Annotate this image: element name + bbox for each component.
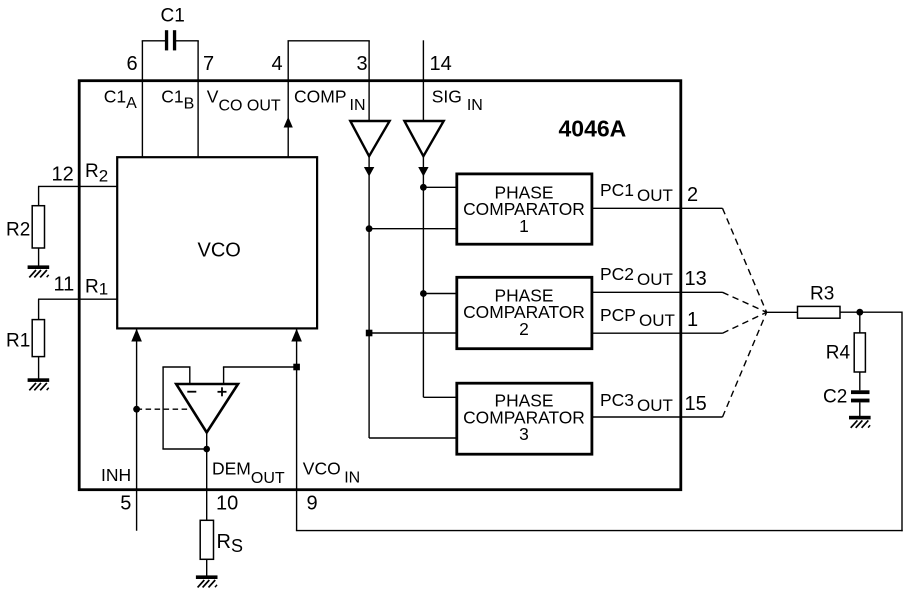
svg-text:C2: C2 bbox=[823, 387, 847, 408]
svg-text:INH: INH bbox=[101, 465, 131, 485]
phase comparator 1 box bbox=[457, 174, 592, 244]
op-amp demodulator triangle bbox=[176, 384, 238, 433]
wire inverting input stub bbox=[189, 367, 191, 384]
wire PC2 input from COMP line bbox=[369, 332, 457, 334]
wire pin 4 vertical (VCO OUT) bbox=[287, 41, 289, 157]
input buffer triangle SIG IN bbox=[404, 121, 443, 156]
junction dot op-amp output bbox=[203, 446, 210, 453]
svg-text:1: 1 bbox=[519, 216, 529, 236]
svg-text:R3: R3 bbox=[810, 284, 834, 305]
wire feedback left vertical bbox=[162, 367, 164, 449]
wire node to right rail bbox=[901, 312, 903, 532]
wire INH vertical bbox=[136, 329, 138, 531]
svg-text:R1: R1 bbox=[6, 330, 30, 351]
wire PC3 input from COMP line bbox=[369, 437, 457, 439]
wire pin 3 vertical (COMP IN) bbox=[368, 41, 370, 121]
svg-text:R4: R4 bbox=[826, 343, 851, 364]
wire feedback bottom bbox=[162, 448, 206, 450]
capacitor C1 bbox=[165, 30, 176, 50]
dashed wire PC1 out to summing node bbox=[723, 208, 767, 312]
svg-text:4046A: 4046A bbox=[559, 116, 627, 142]
wire COMP buffer output vertical bbox=[368, 156, 370, 438]
resistor R1 bbox=[32, 320, 44, 357]
junction dot COMP/PC1 bbox=[366, 225, 373, 232]
svg-text:9: 9 bbox=[307, 493, 318, 515]
op-amp plus sign bbox=[218, 387, 227, 396]
phase comparator 2 text bbox=[463, 285, 585, 339]
op-amp minus sign bbox=[187, 391, 196, 393]
svg-text:4: 4 bbox=[272, 53, 283, 75]
arrowhead up INH into VCO bbox=[131, 329, 142, 342]
junction dot SIG/PC1 bbox=[420, 184, 427, 191]
wire R2 to ground bbox=[38, 248, 40, 266]
svg-text:11: 11 bbox=[54, 274, 75, 296]
wire R4 to C2 bbox=[859, 372, 861, 390]
svg-text:14: 14 bbox=[430, 53, 452, 75]
svg-text:5: 5 bbox=[120, 493, 131, 515]
svg-text:2: 2 bbox=[687, 184, 698, 206]
dashed wire PCP out to summing node bbox=[723, 312, 767, 333]
svg-text:6: 6 bbox=[127, 53, 138, 75]
wire pin 12 (R2) bbox=[38, 185, 118, 187]
wire feedback top bbox=[162, 366, 190, 368]
junction square COMP/PC2 bbox=[366, 330, 373, 337]
svg-text:12: 12 bbox=[52, 164, 74, 186]
input buffer triangle COMP IN bbox=[350, 121, 389, 156]
dashed wire INH to demodulator bbox=[137, 408, 190, 410]
wire node down to R4 bbox=[859, 312, 861, 333]
phase comparator 1 text bbox=[463, 182, 585, 236]
wire PC1 input from COMP line bbox=[369, 228, 457, 230]
wire pin 7 vertical (C1B) bbox=[197, 41, 199, 157]
resistor RS bbox=[200, 520, 213, 559]
arrowhead down below COMP buffer bbox=[364, 167, 374, 177]
dashed wire PC2 out to summing node bbox=[723, 292, 767, 312]
svg-text:10: 10 bbox=[216, 493, 238, 515]
wire pin 14 vertical (SIG IN) bbox=[422, 40, 424, 121]
svg-text:15: 15 bbox=[685, 393, 707, 415]
wire PC1 input from SIG line bbox=[423, 186, 457, 188]
wire C2 to ground bbox=[859, 402, 861, 416]
svg-text:VCO: VCO bbox=[198, 239, 241, 261]
svg-text:2: 2 bbox=[519, 319, 529, 339]
junction square VCOIN / op-amp bbox=[293, 364, 300, 371]
svg-text:R2: R2 bbox=[6, 220, 30, 241]
ground under R2 bbox=[28, 265, 50, 277]
ground under C2 bbox=[849, 416, 871, 428]
wire PC3 output bbox=[592, 416, 723, 418]
wire VCO IN vertical bbox=[296, 329, 298, 531]
wire noninverting input stub bbox=[223, 367, 225, 384]
svg-text:R1: R1 bbox=[85, 276, 108, 298]
junction dot INH bbox=[133, 406, 140, 413]
ground under R1 bbox=[28, 378, 50, 390]
wire RS to ground bbox=[206, 559, 208, 576]
wire pin 11 (R1) bbox=[38, 298, 118, 300]
arrowhead up VCO IN into VCO bbox=[291, 329, 302, 342]
wire top bracket pin4 to pin3 bbox=[288, 40, 370, 42]
resistor R3 bbox=[798, 306, 841, 318]
wire op-amp noninverting input top bbox=[223, 366, 297, 368]
wire PC2 input from SIG line bbox=[423, 293, 457, 295]
wire R1 to ground bbox=[38, 357, 40, 379]
IC outline 4046A package bbox=[79, 81, 681, 490]
wire C1 left lead bbox=[142, 40, 166, 42]
wire PCP output bbox=[592, 332, 723, 334]
svg-text:13: 13 bbox=[685, 268, 707, 290]
svg-text:1: 1 bbox=[687, 309, 698, 331]
resistor R2 bbox=[32, 206, 44, 248]
wire pin 6 vertical (C1A) bbox=[141, 41, 143, 157]
phase comparator 3 box bbox=[457, 383, 592, 454]
svg-text:7: 7 bbox=[203, 53, 214, 75]
VCO block bbox=[117, 157, 317, 328]
ground under RS bbox=[196, 575, 218, 587]
arrowhead down below SIG buffer bbox=[418, 167, 428, 177]
junction dot SIG/PC2 bbox=[420, 290, 427, 297]
dashed wire PC3 out to summing node bbox=[723, 312, 767, 417]
wire pin11 down to R1 bbox=[38, 299, 40, 319]
svg-text:3: 3 bbox=[357, 53, 368, 75]
junction dot R3/R4 node bbox=[856, 309, 863, 316]
svg-text:3: 3 bbox=[519, 424, 529, 444]
wire PC2 output bbox=[592, 291, 723, 293]
wire R3 to node bbox=[840, 311, 902, 313]
phase comparator 3 text bbox=[463, 390, 585, 443]
wire SIG buffer output vertical bbox=[422, 156, 424, 397]
arrowhead up on pin 4 wire bbox=[284, 117, 293, 128]
svg-text:C1: C1 bbox=[161, 6, 185, 27]
wire pin12 down to R2 bbox=[38, 186, 40, 205]
capacitor C2 bbox=[851, 390, 870, 402]
wire PC3 input from SIG line bbox=[423, 396, 457, 398]
wire bottom rail to VCO IN bbox=[296, 530, 903, 532]
resistor R4 bbox=[854, 333, 865, 372]
wire C1 right lead bbox=[176, 40, 199, 42]
phase comparator 2 box bbox=[457, 277, 592, 348]
wire op-amp output vertical bbox=[206, 433, 208, 521]
wire PC1 output bbox=[592, 207, 723, 209]
wire summing node to R3 bbox=[767, 311, 798, 313]
